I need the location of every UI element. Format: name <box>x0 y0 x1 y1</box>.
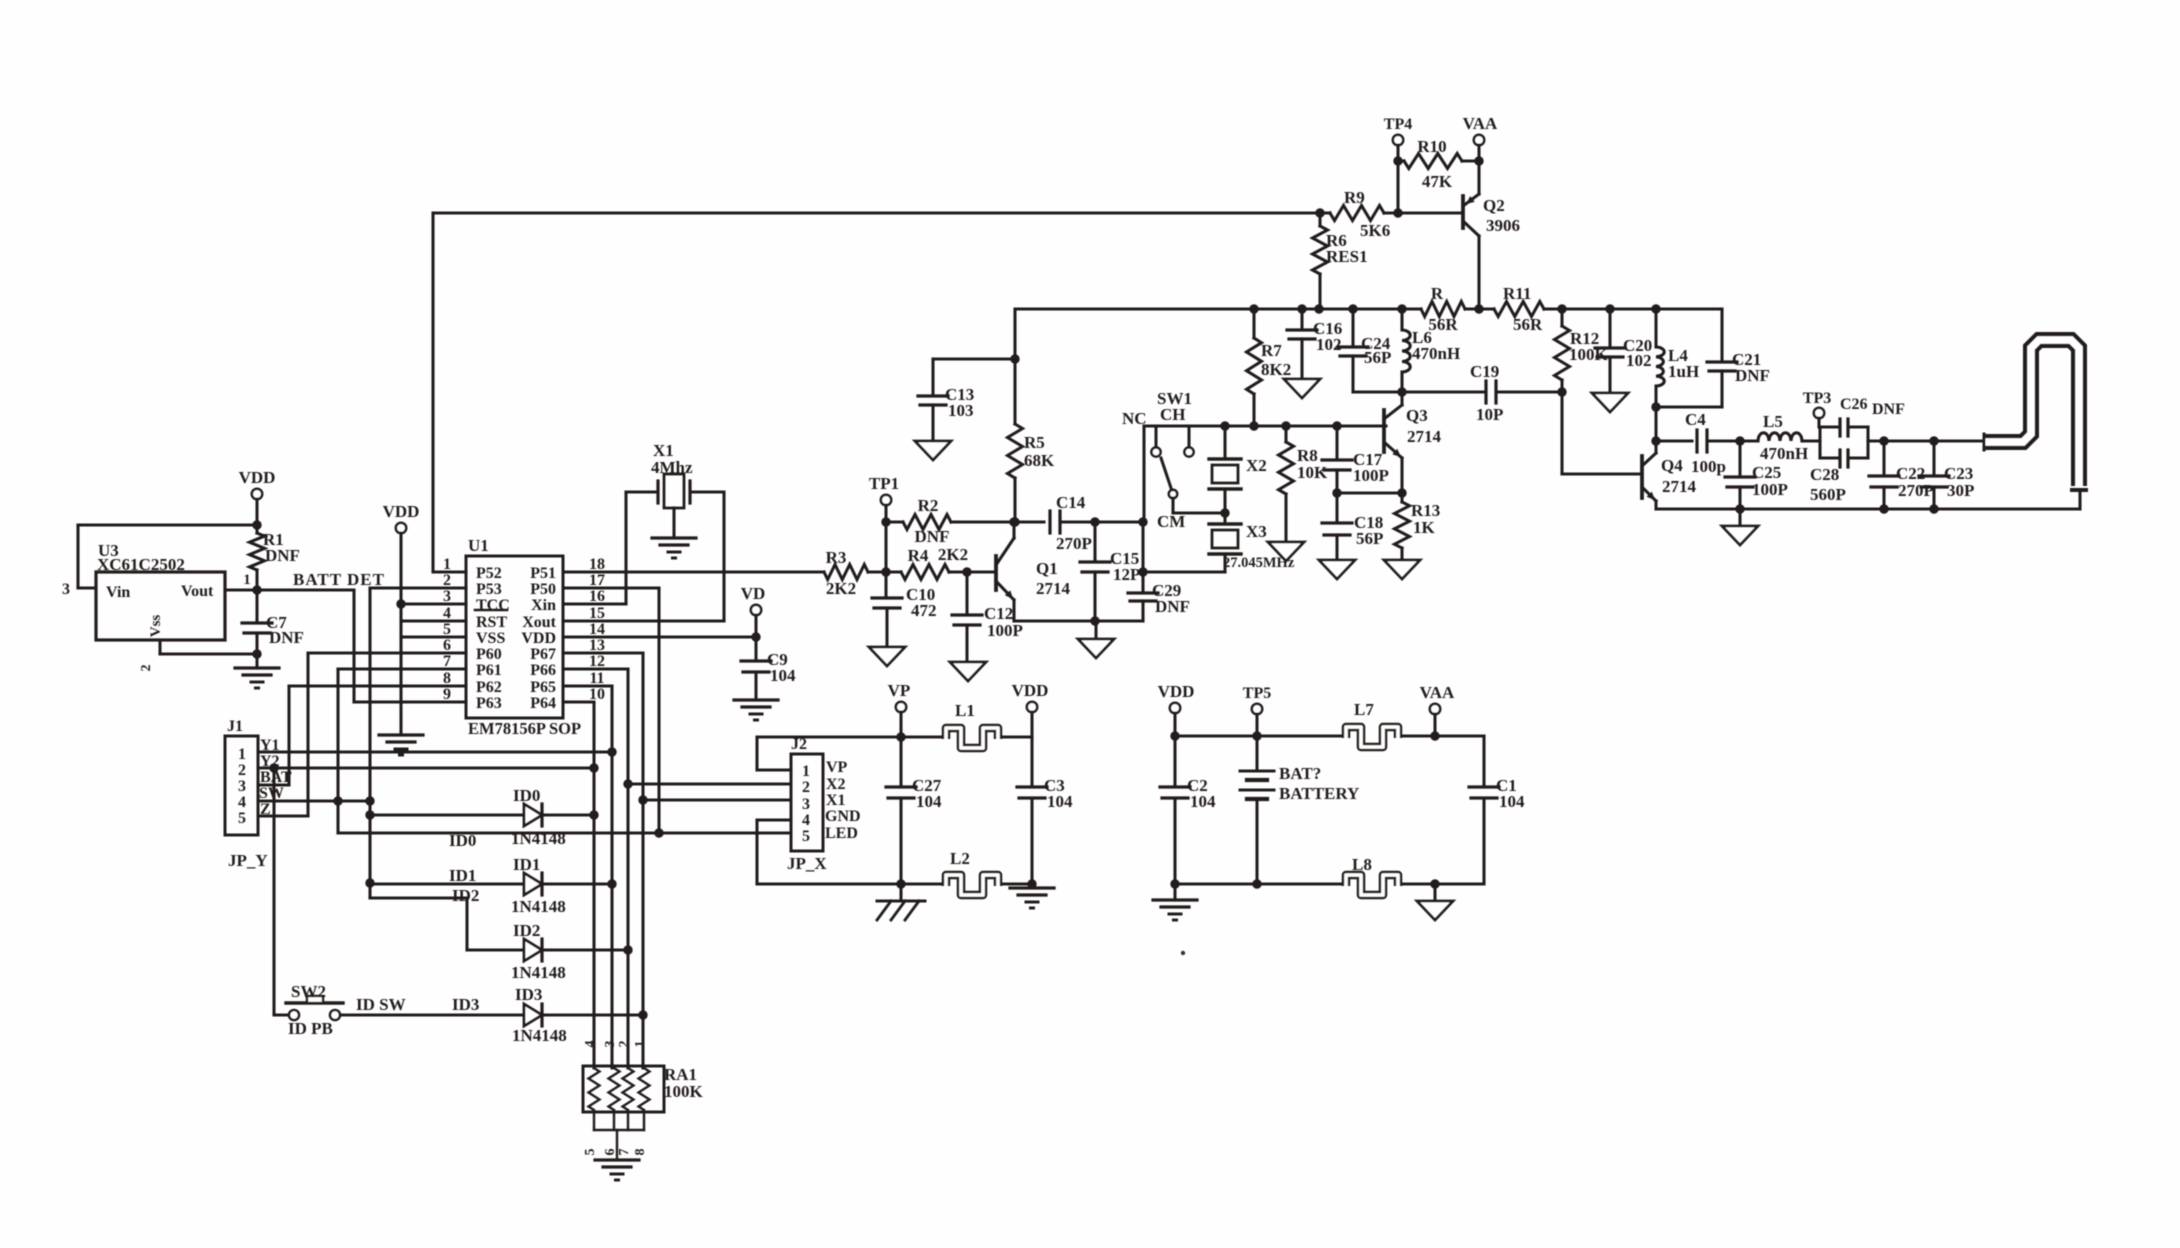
svg-text:VD: VD <box>741 584 766 603</box>
svg-text:2714: 2714 <box>1407 427 1442 446</box>
svg-text:DNF: DNF <box>265 546 300 565</box>
svg-text:472: 472 <box>911 601 937 620</box>
svg-text:104: 104 <box>1047 792 1073 811</box>
wire J2 bottom rail <box>757 882 946 885</box>
svg-text:C4: C4 <box>1685 410 1706 429</box>
ground (C16) <box>1284 379 1320 398</box>
wire 27.045MHz row <box>1143 570 1225 573</box>
svg-text:R10: R10 <box>1417 137 1446 156</box>
wire U1 pin3 TCC <box>401 602 466 605</box>
svg-text:5: 5 <box>443 621 451 638</box>
svg-text:X3: X3 <box>1246 522 1267 541</box>
svg-text:GND: GND <box>825 808 861 825</box>
svg-text:100p: 100p <box>1691 457 1726 476</box>
resistor R9 5K6 <box>1330 206 1384 221</box>
node TP3 <box>1814 408 1824 418</box>
svg-text:R9: R9 <box>1344 188 1365 207</box>
inductor L4 1uH <box>1654 309 1657 347</box>
capacitor C15 12P <box>1093 522 1096 560</box>
svg-text:ID PB: ID PB <box>288 1019 333 1038</box>
svg-text:DNF: DNF <box>1155 597 1190 616</box>
node rail to Q3 base <box>1144 424 1386 427</box>
svg-text:4: 4 <box>583 1041 598 1048</box>
svg-text:VP: VP <box>888 681 911 700</box>
svg-text:Q4: Q4 <box>1661 456 1683 475</box>
svg-text:J1: J1 <box>227 718 243 735</box>
wire U1 pin5 VSS <box>401 635 466 638</box>
svg-text:68K: 68K <box>1024 451 1055 470</box>
svg-text:10K: 10K <box>1297 463 1328 482</box>
capacitor C16 102 <box>1300 309 1303 328</box>
svg-text:2: 2 <box>139 665 154 672</box>
wire Q1 emitter rail <box>1014 619 1143 622</box>
svg-text:56P: 56P <box>1364 348 1391 367</box>
wire J1 Y1 row <box>258 750 612 753</box>
svg-text:JP_Y: JP_Y <box>228 851 268 870</box>
svg-text:R7: R7 <box>1261 341 1282 360</box>
svg-text:2: 2 <box>443 572 451 589</box>
svg-text:5: 5 <box>802 828 810 845</box>
svg-text:6: 6 <box>443 637 451 654</box>
resistor R11 56R <box>1494 302 1544 317</box>
wire L4/C21 bottom <box>1656 405 1722 408</box>
connector J1 JP_Y <box>225 736 258 835</box>
svg-text:P60: P60 <box>476 646 502 663</box>
svg-text:XC61C2502: XC61C2502 <box>97 555 185 574</box>
transistor Q3 2714 <box>1382 410 1386 452</box>
svg-text:Vin: Vin <box>106 584 130 601</box>
ground (C3/L2) <box>1010 886 1054 889</box>
antenna (PCB loop) <box>1984 340 2079 486</box>
capacitor C2 104 <box>1173 736 1176 785</box>
svg-text:R2: R2 <box>918 496 939 515</box>
ground (C12) <box>950 662 986 681</box>
svg-text:R5: R5 <box>1024 433 1045 452</box>
svg-text:9: 9 <box>443 686 451 703</box>
svg-text:ID3: ID3 <box>452 995 479 1014</box>
wire U1 pin14 VDD to VD rail <box>563 635 756 638</box>
svg-text:P64: P64 <box>530 695 556 712</box>
capacitor C26 DNF (top of pair) <box>1818 427 1821 458</box>
resistor R7 8K2 <box>1252 309 1255 338</box>
capacitor C22 270P <box>1882 441 1885 474</box>
ground (U1 VSS rail) <box>379 733 423 736</box>
transistor Q2 3906 (PNP) <box>1461 196 1465 228</box>
resistor R 56R <box>1421 302 1465 317</box>
svg-text:Q2: Q2 <box>1483 196 1505 215</box>
resistor R12 100K <box>1560 309 1563 326</box>
capacitor C13 103 <box>933 357 1015 360</box>
svg-text:EM78156P: EM78156P <box>468 719 546 738</box>
capacitor C29 DNF <box>1141 522 1144 591</box>
svg-text:DNF: DNF <box>1872 401 1905 418</box>
capacitor C9 104 <box>754 615 757 659</box>
svg-text:TP3: TP3 <box>1803 390 1831 407</box>
ground chassis (VP) <box>899 884 902 901</box>
transistor Q1 2714 <box>994 556 998 590</box>
wire output ground rail <box>1656 507 2080 510</box>
svg-text:1: 1 <box>243 572 251 588</box>
wire U1 pin17 vertical <box>563 586 659 589</box>
svg-text:ID1: ID1 <box>449 866 476 885</box>
wire C14 row to C29 <box>1095 520 1143 523</box>
svg-text:1K: 1K <box>1413 518 1436 537</box>
svg-text:VAA: VAA <box>1463 114 1498 133</box>
svg-text:18: 18 <box>589 556 605 573</box>
svg-text:4: 4 <box>802 812 810 829</box>
svg-text:Vss: Vss <box>148 615 164 638</box>
diode ID2 1N4148 <box>524 939 542 961</box>
wire U1 pin6 to J1 Z <box>308 651 466 654</box>
wire L4 node to C4 row <box>1654 407 1657 441</box>
svg-text:15: 15 <box>589 605 605 622</box>
svg-text:VDD: VDD <box>1158 682 1195 701</box>
svg-text:TP4: TP4 <box>1384 116 1412 133</box>
svg-text:CH: CH <box>1160 405 1186 424</box>
wire R12 to Q4 base <box>1562 472 1642 475</box>
svg-text:P53: P53 <box>476 581 502 598</box>
power flag VD <box>751 605 761 615</box>
capacitor C21 DNF <box>1720 309 1723 360</box>
svg-text:16: 16 <box>589 588 605 605</box>
svg-text:3: 3 <box>238 778 246 795</box>
capacitor C1 104 <box>1482 736 1485 785</box>
capacitor C28 560P (bottom of pair) <box>1820 456 1837 459</box>
svg-text:3906: 3906 <box>1486 216 1520 235</box>
ground (C2) <box>1173 884 1176 900</box>
ground (C13) <box>915 441 951 460</box>
svg-text:VDD: VDD <box>521 630 556 647</box>
svg-text:5: 5 <box>583 1149 598 1156</box>
svg-text:56R: 56R <box>1428 315 1458 334</box>
wire BATT DET to U1 pin 9 <box>257 588 354 591</box>
ground (X1) <box>652 536 696 539</box>
svg-text:P62: P62 <box>476 679 502 696</box>
transistor Q4 2714 <box>1640 456 1644 498</box>
power flag VDD (U1) <box>396 523 406 533</box>
capacitor C24 56P <box>1351 309 1354 345</box>
svg-text:1N4148: 1N4148 <box>511 897 566 916</box>
wire main rail <box>1015 307 1421 310</box>
wire C17 to R13 node <box>1337 491 1402 494</box>
ground (R8) <box>1268 542 1304 561</box>
svg-text:2: 2 <box>617 1041 632 1048</box>
wire U1 pin7 to JP_X LED row <box>338 667 466 670</box>
svg-text:L1: L1 <box>955 701 975 720</box>
svg-text:CM: CM <box>1157 512 1185 531</box>
svg-text:ID3: ID3 <box>515 985 542 1004</box>
svg-text:3: 3 <box>443 588 451 605</box>
svg-text:560P: 560P <box>1810 485 1846 504</box>
power flag VAA (battery) <box>1430 704 1440 714</box>
svg-text:2K2: 2K2 <box>826 579 856 598</box>
svg-text:2: 2 <box>238 762 246 779</box>
svg-text:VDD: VDD <box>1012 681 1049 700</box>
svg-text:7: 7 <box>617 1149 632 1156</box>
switch SW2 ID PB <box>272 768 275 1015</box>
svg-text:10P: 10P <box>1476 405 1503 424</box>
power flag VDD (U3/R1) <box>252 489 262 499</box>
svg-text:5: 5 <box>238 810 246 827</box>
svg-text:BATTERY: BATTERY <box>1279 784 1359 803</box>
svg-text:P52: P52 <box>476 565 502 582</box>
svg-text:ID0: ID0 <box>513 786 540 805</box>
ferrite bead L7 <box>1346 727 1398 747</box>
wire to matching caps <box>1868 439 1983 442</box>
ground (RA1) <box>595 1158 639 1161</box>
resistor R13 1K <box>1395 502 1410 548</box>
svg-text:56P: 56P <box>1356 529 1383 548</box>
svg-text:R3: R3 <box>826 548 847 567</box>
node TP5 <box>1252 704 1262 714</box>
ferrite bead L1 <box>946 728 998 748</box>
node BATT DET / U3 pin 1 <box>225 588 257 591</box>
svg-text:C14: C14 <box>1056 493 1086 512</box>
svg-text:VP: VP <box>826 759 848 776</box>
IC U3 XC61C2502 <box>96 572 225 640</box>
svg-text:C19: C19 <box>1470 362 1499 381</box>
svg-text:L2: L2 <box>950 849 970 868</box>
svg-text:BATT DET: BATT DET <box>293 570 385 589</box>
svg-text:Xin: Xin <box>531 597 556 614</box>
svg-text:1N4148: 1N4148 <box>511 963 566 982</box>
svg-text:P51: P51 <box>530 565 556 582</box>
ground (R13) <box>1384 560 1420 579</box>
svg-text:3: 3 <box>802 796 810 813</box>
svg-text:1: 1 <box>802 763 810 780</box>
ground (C7) <box>255 654 258 668</box>
svg-text:VDD: VDD <box>383 502 420 521</box>
svg-text:RST: RST <box>476 614 507 631</box>
diode ID3 1N4148 <box>524 1004 542 1026</box>
diode ID1 1N4148 <box>370 882 524 885</box>
svg-text:BAT?: BAT? <box>1279 764 1321 783</box>
power flag VP <box>896 702 906 712</box>
wire U1 pin8 to J1 BAT <box>289 684 466 687</box>
wire VDD vertical to ground <box>399 533 402 735</box>
svg-text:U1: U1 <box>468 536 489 555</box>
resistor R6 RES1 <box>1313 226 1328 274</box>
svg-text:DNF: DNF <box>269 628 304 647</box>
svg-text:R11: R11 <box>1503 284 1531 303</box>
svg-text:P66: P66 <box>530 662 556 679</box>
wire sub-rail 392 with C19 <box>1353 390 1484 393</box>
svg-text:102: 102 <box>1316 335 1342 354</box>
capacitor C20 102 <box>1608 309 1611 346</box>
svg-text:TCC: TCC <box>476 597 510 614</box>
svg-text:X2: X2 <box>826 776 846 793</box>
capacitor C7 <box>255 590 258 621</box>
capacitor C14 270P <box>1014 520 1044 523</box>
svg-text:SW2: SW2 <box>291 982 326 1001</box>
resistor R2 DNF <box>886 520 903 523</box>
svg-text:100P: 100P <box>1752 480 1788 499</box>
wire ID2 step <box>370 896 467 899</box>
connector J2 JP_X <box>755 737 758 770</box>
svg-text:P50: P50 <box>530 581 556 598</box>
svg-text:L5: L5 <box>1763 412 1783 431</box>
resistor R4 2K2 <box>901 565 949 580</box>
svg-text:C28: C28 <box>1810 465 1839 484</box>
svg-text:4: 4 <box>238 794 246 811</box>
svg-text:VAA: VAA <box>1420 683 1455 702</box>
crystal X2 <box>1223 426 1226 459</box>
wire U1 pin4 RST <box>401 619 466 622</box>
svg-text:J2: J2 <box>791 736 807 753</box>
svg-text:TP5: TP5 <box>1243 685 1271 702</box>
wire VDD to R1 and feedback loop <box>255 499 258 533</box>
wire J1 SW row <box>258 799 370 802</box>
wire U1 pin15 Xout to X1 <box>563 619 724 622</box>
svg-text:104: 104 <box>1499 792 1525 811</box>
battery BAT? <box>1255 736 1258 770</box>
inductor L5 470nH <box>1740 439 1758 442</box>
wire U1 pin11 vertical to RA1 <box>563 684 612 687</box>
wire J1 Y2 row <box>258 766 594 769</box>
svg-text:8: 8 <box>633 1149 648 1156</box>
svg-text:100P: 100P <box>1353 466 1389 485</box>
svg-text:470nH: 470nH <box>1760 444 1808 463</box>
capacitor C3 104 <box>1030 737 1033 785</box>
wire battery top rail <box>1175 734 1346 737</box>
wire U1 pin16 Xin to X1 <box>563 602 626 605</box>
svg-text:17: 17 <box>589 572 605 589</box>
svg-text:Z: Z <box>260 801 271 818</box>
svg-text:470nH: 470nH <box>1412 344 1460 363</box>
wire CM <box>1171 498 1174 513</box>
svg-text:L7: L7 <box>1354 700 1374 719</box>
svg-text:4: 4 <box>443 605 451 622</box>
svg-text:ID0: ID0 <box>449 831 476 850</box>
svg-text:2K2: 2K2 <box>938 545 968 564</box>
svg-text:7: 7 <box>443 653 451 670</box>
svg-text:LED: LED <box>825 825 858 842</box>
ferrite bead L2 <box>946 875 998 895</box>
svg-text:102: 102 <box>1626 351 1652 370</box>
wire RA1 to ground <box>616 1130 618 1160</box>
capacitor C17 100P <box>1335 426 1338 458</box>
svg-text:56R: 56R <box>1513 315 1543 334</box>
wire U3 Vss pin 2 <box>158 640 161 654</box>
wire battery bottom rail <box>1175 882 1346 885</box>
svg-text:ID SW: ID SW <box>356 995 406 1014</box>
svg-text:1: 1 <box>443 556 451 573</box>
resistor R3 2K2 <box>563 570 824 573</box>
diode ID0 1N4148 <box>370 813 524 816</box>
svg-text:Q1: Q1 <box>1036 559 1058 578</box>
capacitor C19 10P <box>1484 381 1487 403</box>
svg-text:SOP: SOP <box>549 719 581 738</box>
wire U1 pin12 vertical to RA1 <box>563 667 628 670</box>
svg-text:R: R <box>1431 284 1444 303</box>
svg-text:Vout: Vout <box>181 583 214 600</box>
inductor L6 470nH <box>1400 309 1403 330</box>
crystal X3 27.045MHz <box>1223 489 1226 513</box>
svg-text:12: 12 <box>589 653 605 670</box>
wire U3 pin3 loop <box>78 523 257 526</box>
capacitor C4 100p <box>1656 439 1692 442</box>
svg-text:2714: 2714 <box>1662 477 1697 496</box>
svg-text:VSS: VSS <box>476 630 505 647</box>
svg-text:14: 14 <box>589 621 605 638</box>
svg-text:JP_X: JP_X <box>787 854 827 873</box>
capacitor C23 30P <box>1932 441 1935 474</box>
svg-text:1N4148: 1N4148 <box>511 829 566 848</box>
capacitor C10 472 <box>884 572 887 596</box>
svg-text:VDD: VDD <box>239 468 276 487</box>
svg-text:104: 104 <box>916 792 942 811</box>
svg-text:30P: 30P <box>1947 481 1974 500</box>
resistor R8 10K <box>1284 426 1287 442</box>
svg-text:1uH: 1uH <box>1668 362 1699 381</box>
svg-text:P61: P61 <box>476 662 502 679</box>
svg-text:TP1: TP1 <box>869 474 899 493</box>
svg-text:1: 1 <box>633 1041 648 1048</box>
capacitor C18 56P <box>1335 493 1338 521</box>
svg-text:8K2: 8K2 <box>1261 360 1291 379</box>
svg-text:2714: 2714 <box>1036 579 1071 598</box>
svg-text:X2: X2 <box>1246 456 1267 475</box>
svg-text:SW: SW <box>259 785 284 802</box>
ground (C20) <box>1592 393 1628 412</box>
svg-text:P67: P67 <box>530 646 556 663</box>
power flag VDD (J2 filter) <box>1027 702 1037 712</box>
power flag VAA (Q2) <box>1474 135 1484 145</box>
svg-text:L8: L8 <box>1352 855 1372 874</box>
svg-text:12P: 12P <box>1113 565 1140 584</box>
node TP4 <box>1393 135 1403 145</box>
svg-text:RES1: RES1 <box>1326 247 1368 266</box>
svg-text:ID2: ID2 <box>513 921 540 940</box>
svg-text:P65: P65 <box>530 679 556 696</box>
svg-text:3: 3 <box>62 581 70 598</box>
power flag VDD (battery) <box>1170 703 1180 713</box>
svg-text:P63: P63 <box>476 695 502 712</box>
svg-text:3: 3 <box>603 1041 618 1048</box>
resistor R5 68K <box>1013 309 1016 424</box>
svg-text:Q3: Q3 <box>1406 406 1428 425</box>
resistor R10 47K <box>1404 154 1462 169</box>
capacitor C25 100P <box>1738 441 1741 475</box>
svg-text:11: 11 <box>589 670 604 687</box>
svg-text:270P: 270P <box>1898 481 1934 500</box>
svg-text:5K6: 5K6 <box>1360 221 1390 240</box>
svg-text:R4: R4 <box>908 546 929 565</box>
svg-text:ID1: ID1 <box>513 855 540 874</box>
svg-text:C26: C26 <box>1840 396 1868 413</box>
svg-text:DNF: DNF <box>915 527 950 546</box>
svg-text:X1: X1 <box>826 792 846 809</box>
svg-text:100K: 100K <box>664 1082 704 1101</box>
svg-text:1: 1 <box>238 746 246 763</box>
wire U1 pin1 / long top wire to R9 <box>433 570 466 573</box>
ground (C9) <box>734 698 778 701</box>
ground (L8/VAA) <box>1433 884 1436 899</box>
ground (C10) <box>869 647 905 666</box>
capacitor C27 104 <box>899 737 902 785</box>
svg-text:8: 8 <box>443 670 451 687</box>
svg-text:100P: 100P <box>987 621 1023 640</box>
svg-text:47K: 47K <box>1422 172 1453 191</box>
wire U1 pin10 vertical to RA1 <box>563 700 594 703</box>
wire U1 pin2 vertical bus <box>370 586 466 589</box>
svg-text:6: 6 <box>603 1149 618 1156</box>
svg-text:270P: 270P <box>1056 534 1092 553</box>
IC U1 EM78156P <box>466 556 563 718</box>
capacitor C12 100P <box>965 572 968 613</box>
ground (Q1 stage) <box>1094 621 1097 639</box>
wire U1 pin13 vertical to RA1 <box>563 651 643 654</box>
